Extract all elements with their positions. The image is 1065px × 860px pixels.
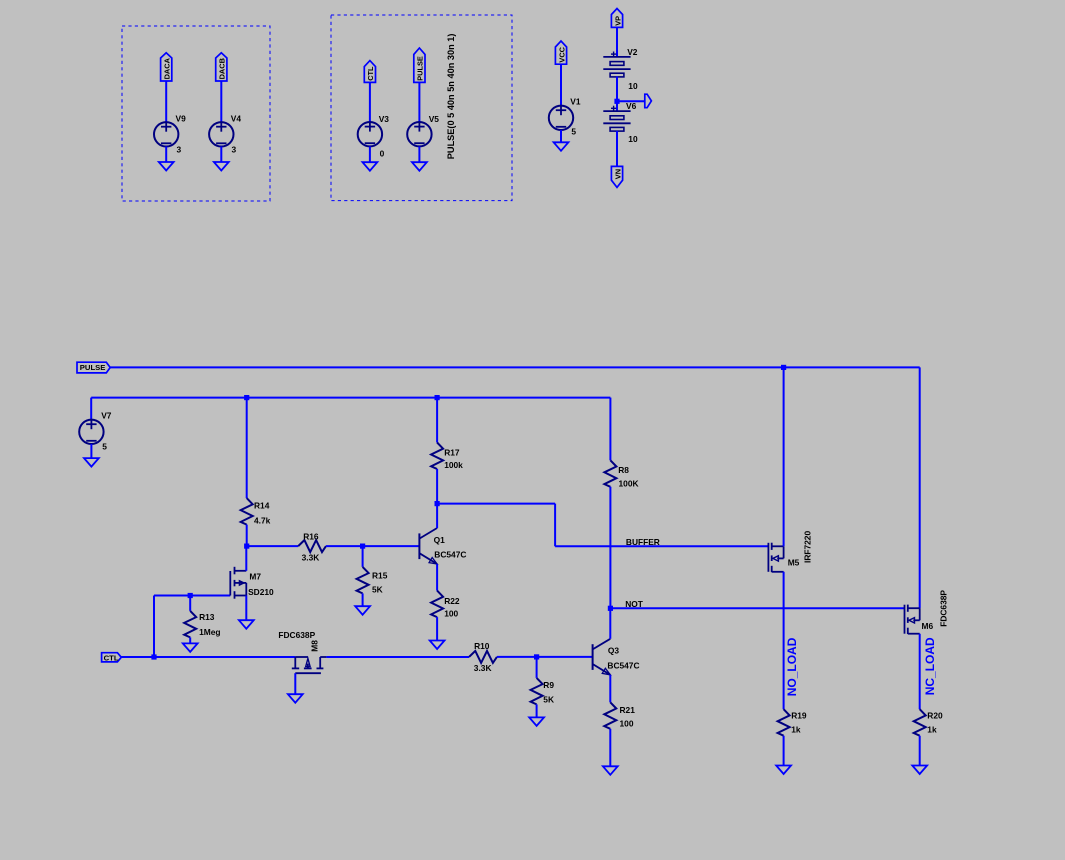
wire (M5 source): [783, 367, 785, 546]
svg-text:M7: M7: [249, 572, 261, 582]
svg-text:R13: R13: [199, 612, 215, 622]
svg-text:1k: 1k: [791, 725, 801, 735]
svg-text:100K: 100K: [619, 479, 639, 489]
output port flag (unlabeled): [645, 94, 652, 108]
wire: [536, 704, 538, 717]
svg-text:3.3K: 3.3K: [302, 553, 320, 563]
resistor R14: [241, 498, 253, 524]
voltage source V3: [358, 122, 382, 146]
ground: [776, 766, 791, 775]
port flag VCC: [555, 41, 566, 64]
svg-text:M8: M8: [309, 640, 319, 652]
wire: [616, 27, 618, 57]
svg-text:R20: R20: [927, 711, 943, 721]
junction (R16/R15/Q1 base): [360, 544, 365, 549]
junction (CTL branch): [151, 654, 156, 659]
ground: [603, 766, 618, 775]
wire: [436, 617, 438, 640]
svg-text:V9: V9: [176, 113, 187, 123]
wire: [616, 77, 618, 112]
wire: [165, 147, 167, 163]
wire (M7 source): [245, 596, 247, 621]
svg-text:BC547C: BC547C: [434, 550, 466, 560]
wire: [220, 147, 222, 163]
svg-text:V6: V6: [626, 101, 637, 111]
ground: [363, 162, 378, 171]
wire (M8 drain to R10): [326, 656, 469, 658]
svg-text:VCC: VCC: [557, 46, 566, 62]
wire BUFFER net: [555, 545, 768, 547]
svg-text:M5: M5: [788, 557, 800, 567]
resistor R10: [469, 651, 497, 663]
svg-text:1Meg: 1Meg: [199, 627, 220, 637]
port flag DACA: [161, 53, 172, 81]
wire: [919, 736, 921, 766]
wire: [783, 736, 785, 766]
mosfet M5: [767, 543, 769, 572]
ground: [430, 641, 445, 650]
wire: [369, 146, 371, 162]
svg-text:CTL: CTL: [366, 66, 375, 81]
wire (node to buffer): [437, 503, 555, 505]
ground: [214, 162, 229, 171]
svg-text:100: 100: [620, 719, 634, 729]
svg-text:R14: R14: [254, 501, 270, 511]
wire: [497, 656, 537, 658]
junction (R14 column): [244, 395, 249, 400]
wire: [560, 130, 562, 142]
junction (R13 tap): [188, 593, 193, 598]
junction (M5 source tap): [781, 365, 786, 370]
resistor R20: [914, 709, 926, 736]
svg-text:Q3: Q3: [608, 646, 620, 656]
wire PULSE rail: [110, 366, 920, 368]
wire: [90, 444, 92, 458]
junction (node R14/R16/M7): [244, 544, 249, 549]
resistor R19: [778, 709, 790, 736]
svg-text:1k: 1k: [927, 725, 937, 735]
wire (Q3 emitter): [609, 675, 611, 703]
svg-text:V2: V2: [627, 47, 638, 57]
junction (Q1 collector node): [435, 501, 440, 506]
voltage source V5: [407, 122, 431, 146]
svg-text:V7: V7: [101, 411, 112, 421]
wire (M7 drain): [245, 546, 247, 571]
svg-text:3.3K: 3.3K: [474, 663, 492, 673]
resistor R8: [604, 460, 616, 487]
svg-text:R15: R15: [372, 570, 388, 580]
resistor R22: [431, 591, 443, 618]
wire: [418, 146, 420, 162]
resistor R17: [431, 443, 443, 470]
wire CTL net: [121, 656, 295, 658]
svg-text:R10: R10: [474, 641, 490, 651]
resistor R21: [604, 702, 616, 729]
svg-text:5K: 5K: [543, 694, 554, 704]
resistor R13: [184, 611, 196, 638]
port flag DACB: [216, 53, 227, 81]
svg-text:DACA: DACA: [163, 57, 172, 79]
wire: [609, 487, 611, 609]
svg-text:BUFFER: BUFFER: [626, 537, 660, 547]
battery V2: [611, 53, 616, 55]
wire: [617, 100, 645, 102]
ground: [288, 694, 303, 703]
ground: [554, 142, 569, 151]
svg-text:PULSE: PULSE: [416, 56, 425, 81]
wire: [246, 525, 248, 547]
svg-text:5K: 5K: [372, 584, 383, 594]
mosfet M6: [904, 605, 906, 634]
svg-text:V3: V3: [379, 114, 390, 124]
port flag VN: [611, 166, 622, 187]
mosfet M7: [229, 571, 231, 596]
wire: [362, 546, 364, 567]
svg-text:3: 3: [232, 145, 237, 155]
svg-text:R8: R8: [618, 465, 629, 475]
dashed box (DAC sources group): [122, 26, 270, 201]
svg-text:R22: R22: [444, 596, 460, 606]
junction (R9 tap): [534, 654, 539, 659]
wire V7 top rail: [91, 397, 610, 399]
svg-text:R16: R16: [303, 532, 319, 542]
wire (up to M7 gate row): [153, 596, 155, 658]
junction: [614, 99, 619, 104]
ground: [412, 162, 427, 171]
svg-text:3: 3: [177, 145, 182, 155]
svg-text:100: 100: [444, 609, 458, 619]
svg-text:PULSE: PULSE: [80, 363, 106, 372]
svg-text:R17: R17: [444, 448, 460, 458]
svg-text:FDC638P: FDC638P: [278, 630, 315, 640]
port flag PULSE: [414, 48, 425, 82]
net label flag PULSE: [77, 362, 110, 373]
transistor Q1: [418, 533, 420, 559]
wire (to Q3 base): [537, 656, 593, 658]
wire: [165, 81, 167, 122]
wire: [436, 469, 438, 504]
wire: [560, 64, 562, 105]
svg-text:IRF7220: IRF7220: [802, 531, 812, 563]
wire: [369, 82, 371, 122]
svg-text:NOT: NOT: [625, 599, 644, 609]
voltage source V4: [209, 122, 233, 146]
wire (Q3 collector): [609, 608, 611, 639]
resistor R16: [298, 540, 326, 552]
svg-text:10: 10: [628, 134, 638, 144]
port flag CTL: [364, 61, 375, 83]
wire: [326, 545, 363, 547]
resistor R9: [531, 678, 543, 705]
mosfet M8: [295, 656, 308, 658]
wire (M6 drain to R20): [919, 634, 921, 710]
junction (R17 column): [435, 395, 440, 400]
wire: [436, 398, 438, 443]
svg-text:5: 5: [102, 442, 107, 452]
wire: [90, 398, 92, 420]
wire: [554, 504, 556, 547]
svg-text:R9: R9: [543, 680, 554, 690]
svg-text:R19: R19: [791, 711, 807, 721]
ground: [159, 162, 174, 171]
wire (M8 gate): [294, 673, 296, 694]
svg-text:5: 5: [571, 127, 576, 137]
svg-text:V4: V4: [231, 113, 242, 123]
svg-text:NC_LOAD: NC_LOAD: [923, 637, 937, 695]
svg-text:NO_LOAD: NO_LOAD: [785, 637, 799, 696]
wire: [609, 729, 611, 767]
svg-text:VN: VN: [613, 169, 622, 179]
ground: [529, 717, 544, 726]
svg-text:100k: 100k: [444, 460, 463, 470]
voltage source V7: [79, 420, 103, 444]
wire (M7 gate row): [154, 595, 230, 597]
transistor Q3: [592, 644, 594, 670]
ground: [84, 458, 99, 467]
battery V6: [611, 107, 616, 109]
wire: [247, 545, 299, 547]
ground: [355, 606, 370, 615]
svg-text:FDC638P: FDC638P: [938, 590, 948, 627]
voltage source V9: [154, 122, 178, 146]
net label flag CTL: [102, 653, 122, 662]
wire: [616, 131, 618, 167]
dashed box (CTL/PULSE sources group): [331, 15, 512, 201]
svg-text:SD210: SD210: [248, 587, 274, 597]
wire: [246, 398, 248, 499]
svg-text:BC547C: BC547C: [607, 660, 639, 670]
svg-text:VP: VP: [613, 16, 622, 26]
wire: [609, 398, 611, 461]
wire (to Q1 base): [363, 545, 420, 547]
svg-text:PULSE(0 5 40n 5n 40n 30n 1): PULSE(0 5 40n 5n 40n 30n 1): [446, 34, 456, 160]
svg-text:Q1: Q1: [434, 535, 446, 545]
svg-text:10: 10: [628, 81, 638, 91]
port flag VP: [611, 9, 622, 28]
ground: [183, 643, 198, 652]
wire: [220, 81, 222, 122]
wire NOT net: [610, 607, 904, 609]
svg-text:4.7k: 4.7k: [254, 515, 271, 525]
voltage source V1: [549, 106, 573, 130]
svg-text:V5: V5: [429, 114, 440, 124]
svg-text:M6: M6: [922, 621, 934, 631]
wire (Q1 collector): [436, 504, 438, 528]
wire (down to M6 source): [919, 367, 921, 608]
wire: [189, 637, 191, 643]
svg-text:0: 0: [380, 148, 385, 158]
ground: [912, 766, 927, 775]
wire (M5 drain to R19): [783, 572, 785, 709]
wire: [418, 82, 420, 122]
wire: [536, 657, 538, 678]
svg-text:V1: V1: [570, 96, 581, 106]
resistor R15: [357, 567, 369, 594]
svg-text:CTL: CTL: [104, 653, 119, 662]
svg-text:R21: R21: [620, 705, 636, 715]
ground: [239, 620, 254, 629]
wire: [362, 593, 364, 606]
junction (NOT node): [608, 606, 613, 611]
svg-text:DACB: DACB: [218, 58, 227, 79]
wire: [189, 596, 191, 611]
wire (Q1 emitter): [436, 564, 438, 591]
